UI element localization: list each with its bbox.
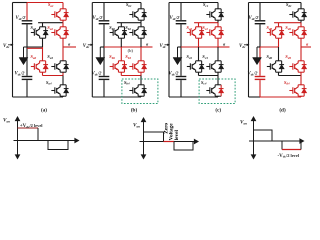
svg-text:(d): (d) [279,107,286,114]
ground (neutral point) (d) [253,47,262,65]
svg-text:Vdc/2: Vdc/2 [249,15,260,21]
svg-text:Sd3: Sd3 [285,54,291,60]
wire capacitor branch bottom segment (d) [259,80,261,97]
wire top DC rail (a) [13,2,28,4]
transistor Sc2 (upper-middle main switch) [206,27,221,38]
wire bottom DC rail (a) [13,96,64,98]
svg-text:Sb4: Sb4 [124,80,130,86]
transistor Sb1 (top main switch) [129,9,144,20]
svg-text:level: level [174,129,180,140]
wire m2 bus between Sc3/Sc4 and clamp (c) [199,75,219,77]
wire left DC rail (c) [168,3,170,98]
wire clamp column segments (a) [42,23,44,27]
axes of waveform 3 [249,117,304,159]
svg-text:Vdc/2: Vdc/2 [248,71,259,77]
capacitor Cd1 (upper DC-link) [255,21,266,24]
wire capacitor branch bottom segment (a) [26,80,28,97]
highlight dashed box around Sc4 (c) [199,79,235,104]
transistor Sa2 (upper-middle main switch) [51,27,66,38]
node a output wire (d) [301,46,311,48]
capacitor Cd2 (lower DC-link) [255,77,266,80]
waveform 2 negative pulse [174,142,193,151]
svg-text:Sb2: Sb2 [125,25,131,31]
wire m1 bus between Sd1/Sd2 and clamp (d) [274,22,301,24]
transistor Sd2 (upper-middle main switch) [289,27,304,38]
capacitor Ca1 (upper DC-link) [22,21,33,24]
svg-text:Sc5: Sc5 [186,25,192,31]
transistor Sb2 (upper-middle main switch) [129,27,144,38]
svg-text:Van: Van [133,123,140,129]
ground (neutral point) (b) [96,47,105,65]
waveform 3 negative pulse at -Vdc/2 (highlighted bottom) [281,141,283,150]
wire neutral conduction path highlight (d) [260,46,279,48]
svg-text:Sa2: Sa2 [47,25,53,31]
wire capacitor branch mid segment (c) [180,24,182,47]
wire main column segments (a) [62,3,64,9]
waveform 3 positive pulse [254,130,273,141]
node n neutral wire (c) [178,46,182,48]
wire clamp column segments (b) [120,23,122,27]
axes of waveform 1 [14,117,79,159]
node a output wire (c) [218,46,230,48]
transistor Sa3 (lower-middle main switch) [51,61,66,72]
transistor Sc3 (lower-middle main switch) [206,61,221,72]
wire main column segments (c) [217,3,219,9]
wire main column segments (b) [140,3,142,9]
node a output wire (a) [63,46,76,48]
svg-text:Vdc/2: Vdc/2 [170,15,181,21]
svg-text:Sc6: Sc6 [186,54,192,60]
node n neutral wire (b) [100,46,104,48]
wire capacitor branch top segment (b) [103,3,105,21]
wire clamp column segments (c) [198,23,200,27]
transistor Sd5 (upper clamp switch) [267,27,282,38]
svg-text:a: a [68,41,71,46]
svg-text:(c): (c) [215,107,221,114]
wire capacitor branch top segment (c) [180,3,182,21]
svg-text:(b): (b) [131,107,138,114]
svg-text:Vdc/2: Vdc/2 [16,15,27,21]
transistor Sa5 (upper clamp switch) [31,27,46,38]
svg-text:Sb6: Sb6 [109,54,115,60]
svg-text:Vdc/2: Vdc/2 [92,71,103,77]
waveform 1 negative pulse at -Vdc/2 [48,141,68,150]
svg-text:a: a [146,41,149,46]
transistor Sb3 (lower-middle main switch) [129,61,144,72]
wire m1 bus between Sb1/Sb2 and clamp (b) [117,22,141,24]
svg-text:Sd5: Sd5 [266,25,272,31]
wire m1 bus between Sa1/Sa2 and clamp (a) [38,22,63,24]
svg-text:Sa4: Sa4 [46,80,52,86]
wire neutral conduction path highlight (c) [181,46,230,48]
transistor Sc5 (upper clamp switch) [187,27,202,38]
capacitor Cc2 (lower DC-link) [176,77,187,80]
transistor Sb6 (lower clamp switch) [110,61,125,72]
ground (neutral point) (a) [19,47,28,65]
transistor Sa4 (bottom main switch) [51,85,66,96]
wire bottom DC rail (c) [169,96,218,98]
wire left DC rail (b) [91,3,93,98]
wire top DC rail (d) [249,2,302,4]
transistor Sc1 (top main switch) [206,9,221,20]
svg-text:Sc3: Sc3 [202,54,208,60]
svg-text:a: a [306,41,309,46]
wire capacitor branch mid segment (b) [103,24,105,47]
waveform 2 zero-level highlighted segment [164,141,175,143]
node n neutral wire (d) [257,46,260,48]
axes of waveform 2 [140,118,199,159]
node n neutral wire (a) [24,46,43,48]
wire left DC rail (d) [248,3,250,98]
wire neutral conduction path highlight (b) [104,46,153,48]
svg-text:Van: Van [240,120,247,126]
wire m2 bus between Sa3/Sa4 and clamp (a) [43,75,64,77]
wire m1 bus between Sc1/Sc2 and clamp (c) [194,22,218,24]
svg-text:a: a [223,41,226,46]
transistor Sd4 (bottom main switch) [289,85,304,96]
highlight dashed box around Sb4 (b) [122,79,158,104]
waveform 2 positive pulse [144,132,164,142]
svg-text:Sc4: Sc4 [201,80,207,86]
transistor Sa1 (top main switch) [51,9,66,20]
svg-text:Sd6: Sd6 [266,54,272,60]
capacitor Cb2 (lower DC-link) [99,77,110,80]
wire capacitor branch top segment (d) [259,3,261,21]
waveform 2 group (zero state output) [133,118,198,159]
svg-text:Sc2: Sc2 [202,25,208,31]
svg-text:Sb3: Sb3 [125,54,131,60]
wire main column segments (d) [300,3,302,9]
capacitor Cc1 (upper DC-link) [176,21,187,24]
wire m2 bus between Sd3/Sd4 and clamp (d) [279,75,302,77]
svg-text:Sa6: Sa6 [30,54,36,60]
transistor Sc6 (lower clamp switch) [187,61,202,72]
transistor Sc4 (bottom main switch) [206,85,221,96]
wire bottom DC rail (b) [92,96,141,98]
wire bottom DC rail (d) [249,96,261,98]
svg-text:Van: Van [3,118,10,124]
ground (neutral point) (c) [173,47,182,65]
wire capacitor branch mid segment (d) [259,24,261,47]
svg-text:Vdc/2: Vdc/2 [15,71,26,77]
capacitor Cb1 (upper DC-link) [99,21,110,24]
wire capacitor branch top segment (a) [26,3,28,21]
svg-text:-Vdc/2 level: -Vdc/2 level [278,153,300,159]
wire capacitor branch bottom segment (c) [180,80,182,97]
transistor Sb5 (upper clamp switch) [110,27,125,38]
wire neutral conduction path highlight (a) [27,47,43,49]
wire capacitor branch mid segment (a) [26,24,28,47]
svg-text:(a): (a) [41,107,47,114]
svg-text:Sa3: Sa3 [47,54,53,60]
node a output wire (b) [141,46,153,48]
svg-text:Sd4: Sd4 [284,80,290,86]
svg-text:Vdc/2: Vdc/2 [93,15,104,21]
wire m2 bus between Sb3/Sb4 and clamp (b) [121,75,141,77]
waveform 3 group (output of state d) [240,117,304,159]
wire left DC rail (a) [12,3,14,98]
svg-text:Sb5: Sb5 [109,25,115,31]
transistor Sd1 (top main switch) [289,9,304,20]
wire top DC rail (c) [169,2,218,4]
wire top DC rail (b) [92,2,141,4]
transistor Sa6 (lower clamp switch) [31,61,46,72]
wire clamp column segments (d) [278,23,280,27]
svg-text:Sd2: Sd2 [285,25,291,31]
transistor Sb4 (bottom main switch) [129,85,144,96]
svg-text:Vdc/2: Vdc/2 [169,71,180,77]
svg-text:Sa5: Sa5 [30,25,36,31]
transistor Sd6 (lower clamp switch) [267,61,282,72]
wire capacitor branch bottom segment (b) [103,80,105,97]
capacitor Ca2 (lower DC-link) [22,77,33,80]
waveform 1 group (output of state a) [3,117,79,159]
svg-text:(b): (b) [128,48,134,53]
waveform 1 positive pulse at +Vdc/2 [18,127,39,129]
transistor Sd3 (lower-middle main switch) [289,61,304,72]
